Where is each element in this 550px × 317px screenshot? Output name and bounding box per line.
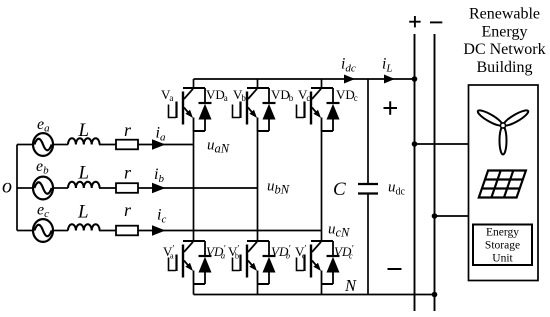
svg-text:V′b: V′b	[228, 244, 239, 261]
wire bus to source eb	[17, 187, 33, 189]
wire building feed upper	[415, 143, 469, 145]
wire leg b midpoint vertical	[257, 130, 259, 242]
IGBT Vc'	[297, 241, 334, 284]
IGBT Vb'	[233, 241, 270, 284]
wire capacitor branch upper	[367, 79, 369, 184]
svg-text:Unit: Unit	[492, 253, 513, 265]
svg-text:Renewable: Renewable	[469, 6, 540, 23]
inductor L phase a	[68, 138, 100, 144]
polarity minus (udc)	[388, 268, 402, 270]
current arrow iL	[384, 75, 395, 84]
wire bus to source ec	[17, 230, 33, 232]
wire leg a upper drop	[193, 79, 195, 89]
resistor r phase c	[116, 226, 138, 236]
wire inductor to resistor phase a	[99, 144, 116, 146]
wire resistor to bridge leg c	[138, 230, 322, 232]
building box	[469, 85, 539, 281]
diode VDb'	[263, 241, 276, 284]
diode VDc	[327, 88, 340, 131]
wire source ea to inductor	[53, 144, 68, 146]
energy storage unit box	[473, 225, 532, 266]
AC source ea	[33, 133, 53, 156]
svg-text:N: N	[344, 276, 357, 295]
svg-text:VDa: VDa	[206, 87, 228, 103]
wire left neutral bus	[16, 145, 18, 231]
resistor r phase a	[116, 140, 138, 150]
current arrow ib	[152, 183, 166, 193]
wire source ec to inductor	[53, 230, 68, 232]
svg-text:Energy: Energy	[486, 227, 519, 239]
IGBT Va	[169, 88, 206, 131]
svg-text:L: L	[78, 120, 90, 141]
current arrow ic	[152, 225, 166, 235]
wire resistor to bridge leg b	[138, 187, 258, 189]
svg-text:r: r	[124, 120, 132, 140]
AC source eb	[33, 177, 53, 200]
wire leg b upper drop	[257, 79, 259, 89]
IGBT Va'	[169, 241, 206, 284]
wire leg c midpoint vertical	[321, 130, 323, 242]
svg-text:r: r	[124, 163, 132, 183]
wind turbine icon	[476, 108, 530, 155]
wire bottom DC rail (N)	[194, 294, 435, 296]
wire inductor to resistor phase c	[99, 230, 116, 232]
wire leg b lower drop	[257, 284, 259, 295]
AC source ec	[33, 219, 53, 242]
junction building feed lower	[432, 213, 438, 219]
resistor r phase b	[116, 183, 138, 193]
svg-text:o: o	[2, 176, 12, 198]
current arrow ia	[152, 139, 166, 149]
inductor L phase c	[68, 224, 100, 230]
junction bottom rail to bus	[432, 292, 438, 298]
wire resistor to bridge leg a	[138, 144, 194, 146]
diode VDb	[263, 88, 276, 131]
diode VDa'	[199, 241, 212, 284]
IGBT Vb	[233, 88, 270, 131]
wire leg c upper drop	[321, 79, 323, 89]
IGBT Vc	[297, 88, 334, 131]
svg-text:VD′c: VD′c	[334, 244, 354, 261]
wire source eb to inductor	[53, 187, 68, 189]
svg-text:V′c: V′c	[295, 244, 306, 261]
svg-text:V′a: V′a	[163, 244, 174, 261]
wire building feed lower	[435, 215, 469, 217]
wire leg c lower drop	[321, 284, 323, 295]
wire leg a lower drop	[193, 284, 195, 295]
wire capacitor branch lower	[367, 194, 369, 295]
bus label minus	[430, 21, 442, 23]
svg-text:Storage: Storage	[485, 240, 520, 252]
diode VDa	[199, 88, 212, 131]
svg-text:VDc: VDc	[336, 87, 358, 103]
inductor L phase b	[68, 182, 100, 188]
capacitor C	[358, 184, 378, 194]
solar panel icon	[479, 171, 526, 198]
wire bus to source ea	[17, 144, 33, 146]
svg-text:r: r	[124, 200, 132, 220]
svg-text:Building: Building	[476, 59, 532, 76]
wire DC bus positive	[414, 34, 416, 311]
wire DC bus negative	[434, 34, 436, 311]
svg-text:L: L	[77, 201, 89, 222]
wire top DC rail	[194, 78, 415, 80]
junction top rail to bus	[412, 76, 418, 82]
svg-text:Energy: Energy	[482, 23, 528, 40]
svg-text:C: C	[333, 179, 346, 200]
svg-text:DC Network: DC Network	[463, 41, 545, 58]
svg-text:VD′b: VD′b	[271, 244, 291, 261]
wire leg a midpoint vertical	[193, 130, 195, 242]
bus label plus	[409, 16, 420, 27]
diode VDc'	[327, 241, 340, 284]
polarity plus (udc)	[384, 101, 398, 115]
wire inductor to resistor phase b	[99, 187, 116, 189]
junction building feed upper	[412, 141, 418, 147]
current arrow idc	[344, 75, 355, 84]
svg-text:L: L	[78, 163, 90, 184]
svg-text:VD′a: VD′a	[206, 244, 226, 261]
